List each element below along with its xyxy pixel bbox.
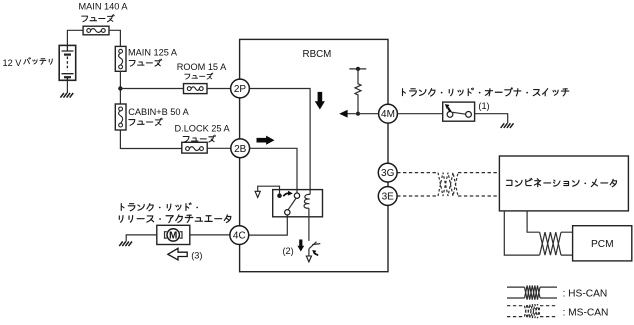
fuse F2 MAIN 125 A bbox=[115, 46, 126, 71]
relay coil bbox=[304, 194, 310, 208]
combination meter box bbox=[499, 156, 628, 211]
svg-text:D.LOCK 25 A: D.LOCK 25 A bbox=[175, 124, 231, 134]
wire motor to ground bbox=[126, 235, 157, 242]
svg-text:CABIN+B 50 A: CABIN+B 50 A bbox=[128, 107, 189, 117]
resistor with supply bar bbox=[349, 68, 366, 70]
wire 4M to opener switch bbox=[397, 113, 442, 115]
svg-text:4M: 4M bbox=[381, 109, 395, 120]
dashed MS-CAN wire 3E bbox=[397, 195, 499, 197]
connector 3E bbox=[378, 187, 397, 206]
trunk lid release actuator labels bbox=[121, 203, 198, 211]
flow arrow right near 2B bbox=[257, 136, 275, 145]
svg-text:(1): (1) bbox=[478, 101, 489, 111]
wire 4M output with left arrowhead bbox=[347, 113, 379, 115]
wire F2 to junction to F4 bbox=[119, 71, 121, 104]
opener switch actuation arrow bbox=[448, 107, 451, 111]
wire opener switch to ground bbox=[475, 114, 508, 124]
motor M circle bbox=[167, 229, 179, 241]
svg-text:M: M bbox=[169, 231, 177, 242]
trunk lid opener switch box bbox=[443, 102, 475, 121]
fuse F1 MAIN 140 A bbox=[83, 26, 109, 35]
opener switch contacts and blade bbox=[453, 112, 466, 114]
continuation arrow (relay, open) bbox=[255, 191, 260, 197]
legend HS-CAN lines bbox=[507, 287, 557, 298]
HS-CAN twisted pair bbox=[540, 232, 561, 255]
label trunk lid opener switch bbox=[403, 88, 569, 96]
relay actuation arrow bbox=[283, 193, 289, 196]
wire 4C to relay moving contact bbox=[249, 215, 288, 235]
legend HS-CAN twist bbox=[525, 286, 541, 300]
flow arrow down (2) bbox=[297, 240, 304, 252]
svg-text:(2): (2) bbox=[283, 246, 294, 256]
svg-text:(3): (3) bbox=[191, 250, 202, 260]
svg-text:ROOM 15 A: ROOM 15 A bbox=[177, 62, 227, 72]
continuation arrow (down, open) bbox=[306, 256, 311, 262]
switch (2) actuation arrow bbox=[314, 252, 318, 255]
relay moving contact bbox=[285, 210, 290, 215]
svg-text:2B: 2B bbox=[234, 144, 247, 155]
wire junction to ROOM fuse bbox=[120, 88, 183, 90]
flow arrow down near 2P bbox=[315, 92, 325, 110]
trunk lid release actuator motor box bbox=[157, 225, 190, 244]
MS-CAN twisted pair bbox=[438, 173, 458, 196]
wire 2B to relay contact bbox=[250, 148, 297, 193]
wire CABIN to D.LOCK fuse bbox=[120, 130, 181, 149]
motor brushes bbox=[165, 232, 183, 238]
battery 12V bbox=[59, 45, 75, 80]
svg-text:3E: 3E bbox=[382, 192, 395, 203]
RBCM box bbox=[240, 39, 388, 271]
switch (2) tick bbox=[312, 244, 320, 245]
connector 2P bbox=[231, 79, 250, 98]
relay K1 box bbox=[273, 190, 323, 217]
svg-text:2P: 2P bbox=[234, 84, 247, 95]
svg-text:3G: 3G bbox=[381, 168, 395, 179]
fuse F5 D.LOCK 25 A bbox=[182, 142, 207, 153]
junction dot resistor line bbox=[356, 112, 360, 116]
svg-text:: HS-CAN: : HS-CAN bbox=[563, 288, 608, 299]
relay blade bbox=[288, 198, 296, 210]
connector 4C bbox=[230, 226, 249, 245]
legend MS-CAN twist bbox=[525, 304, 541, 318]
connector 3G bbox=[378, 163, 397, 182]
relay NO contact bbox=[294, 193, 299, 198]
wires twist to PCM bbox=[561, 232, 573, 255]
meter to HS-CAN wires bbox=[504, 211, 539, 255]
svg-text:RBCM: RBCM bbox=[303, 49, 332, 60]
wire D.LOCK to 2B bbox=[207, 147, 231, 149]
connector 2B bbox=[231, 139, 250, 158]
relay common wire to continuation arrow bbox=[258, 186, 280, 193]
switch (2) blade bbox=[309, 242, 317, 249]
svg-text:12 V: 12 V bbox=[3, 58, 23, 68]
direction arrow (3) outline bbox=[168, 248, 187, 260]
wire F1 to F2 bbox=[109, 30, 120, 46]
connector 4M bbox=[379, 104, 398, 123]
dashed MS-CAN wire 3G bbox=[397, 172, 499, 174]
svg-text:: MS-CAN: : MS-CAN bbox=[563, 307, 609, 318]
wire coil down to switch bbox=[308, 208, 310, 241]
label combination meter bbox=[506, 178, 616, 186]
legend MS-CAN lines bbox=[507, 306, 557, 317]
wire to continuation arrow bbox=[308, 249, 310, 256]
wire ROOM fuse to 2P bbox=[207, 88, 231, 90]
fuse F3 ROOM 15 A bbox=[184, 84, 208, 94]
PCM box bbox=[573, 226, 632, 261]
wire 2P to relay coil bbox=[249, 89, 310, 195]
ground battery bbox=[66, 80, 68, 93]
wire battery to MAIN 140 A fuse bbox=[67, 30, 83, 45]
fuse F4 CABIN+B 50 A bbox=[115, 104, 126, 130]
wire motor to 4C bbox=[190, 234, 230, 236]
relay common contact dot bbox=[277, 193, 282, 198]
svg-text:MAIN 140 A: MAIN 140 A bbox=[79, 2, 129, 12]
svg-text:MAIN 125 A: MAIN 125 A bbox=[128, 48, 178, 58]
svg-text:4C: 4C bbox=[233, 231, 246, 242]
svg-text:PCM: PCM bbox=[591, 239, 614, 250]
junction dot bbox=[118, 86, 122, 90]
